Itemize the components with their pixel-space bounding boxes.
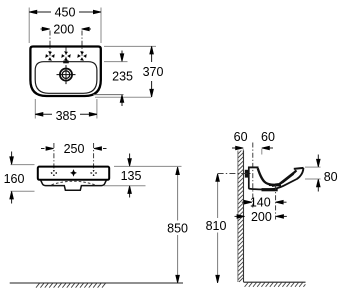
dimension 140 (242, 196, 287, 210)
basin side profile: front rim top (294, 168, 304, 169)
overflow slot (63, 61, 69, 64)
svg-text:135: 135 (121, 169, 142, 183)
basin rim box (front view) (38, 167, 109, 180)
extension line 450 right (100, 8, 102, 44)
centerline tap hole left (49, 31, 51, 58)
extension line 160 bottom (11, 190, 35, 192)
basin under-body (front view) (41, 180, 107, 190)
dimension 235 (112, 51, 133, 107)
wall hatching (238, 144, 244, 282)
basin side profile: rim top back deck (248, 166, 259, 168)
extension line 60 left (wall face) (242, 149, 244, 158)
svg-text:450: 450 (55, 6, 76, 20)
wall section (238, 151, 244, 283)
fixing hole right (front) (91, 170, 97, 176)
centerline tap hole (side view) (252, 143, 254, 208)
dimension 370 (143, 46, 164, 97)
svg-text:385: 385 (56, 109, 77, 123)
dimension 60 60 (232, 130, 275, 150)
dimension 160 (4, 152, 25, 204)
dimension 250 (41, 142, 107, 156)
basin side profile: drain recess line (269, 184, 281, 187)
centerline fixing hole (side view) (218, 173, 251, 175)
floor hatching (side view) (245, 283, 306, 287)
dimension 80 (317, 155, 338, 192)
extension line 385 right (96, 99, 98, 119)
extension line 160 top (11, 164, 35, 166)
centerline tap hole middle (65, 47, 67, 62)
dimension 385 (35, 109, 97, 123)
basin side profile: front face (297, 168, 304, 179)
tap hole mark middle (61, 51, 70, 60)
dimension 200 (41, 23, 92, 37)
basin side profile: underside (249, 179, 297, 189)
extension line 135 bottom (104, 185, 146, 187)
centerline fixing hole left (53, 143, 55, 171)
basin side profile: bowl interior curve (258, 168, 297, 185)
svg-text:250: 250 (64, 142, 85, 156)
tap hole mark left (45, 51, 54, 60)
centerline fixing hole right (93, 143, 95, 171)
basin side profile: bowl inner thickness line (272, 174, 294, 186)
extension line 60 right (261, 149, 263, 155)
centerline tap hole right (81, 31, 83, 58)
centerline drain (side view) (275, 185, 277, 220)
svg-text:140: 140 (250, 196, 271, 210)
drain symbol (57, 65, 76, 84)
dimension 810 (206, 174, 227, 283)
fixing hole block (side view) (245, 170, 249, 178)
extension line 80 bottom (305, 178, 321, 180)
svg-text:200: 200 (53, 23, 74, 37)
hidden bowl outline (dashed) (52, 181, 95, 185)
basin outer outline (plan) (30, 47, 100, 97)
tap hole mark right (77, 51, 86, 60)
svg-text:235: 235 (112, 70, 133, 84)
svg-text:810: 810 (206, 219, 227, 233)
extension line 385 left (34, 99, 36, 119)
svg-text:200: 200 (251, 210, 272, 224)
ground line (front view) (10, 282, 183, 284)
extension line rim top right (114, 165, 182, 167)
ground hatching (front view) (36, 283, 105, 287)
tap hole (front) (71, 170, 76, 175)
extension line 370 bottom (95, 96, 151, 98)
extension line 80 top (305, 166, 321, 168)
svg-text:160: 160 (4, 172, 25, 186)
svg-text:60: 60 (234, 130, 248, 144)
extension line bowl top right (104, 61, 128, 63)
svg-text:60: 60 (261, 130, 275, 144)
extension line 235 bottom (93, 94, 123, 96)
dimension 200 (side view) (235, 210, 287, 224)
svg-text:370: 370 (143, 65, 164, 79)
fixing hole left (front) (51, 170, 57, 176)
extension line basin top right (104, 45, 156, 47)
dimension 850 (167, 167, 188, 283)
dimension 450 (29, 6, 101, 20)
svg-text:850: 850 (167, 222, 188, 236)
dimension 135 (121, 154, 142, 198)
floor line (side view) (244, 281, 306, 283)
basin inner bowl (plan) (35, 62, 97, 94)
basin side profile: back edge (248, 167, 250, 189)
extension line 450 left (28, 8, 30, 44)
svg-text:80: 80 (324, 170, 338, 184)
drain boss (side view) (262, 188, 278, 191)
